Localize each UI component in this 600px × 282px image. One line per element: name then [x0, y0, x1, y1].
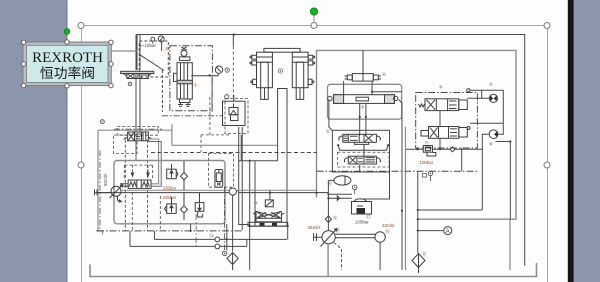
svg-text:⑰: ⑰	[366, 213, 371, 220]
long dash-dot rail y=231	[97, 230, 242, 232]
gauge circle left area	[100, 120, 104, 124]
wire	[239, 160, 278, 162]
pump P1 (variable main pump)	[95, 185, 123, 202]
left piston rods	[261, 62, 269, 99]
shuttle valve arrow	[328, 196, 351, 201]
right slate panel	[574, 0, 600, 282]
wire	[417, 171, 419, 253]
junction dot	[269, 192, 271, 194]
inner gray box 3	[328, 84, 402, 119]
wire	[481, 90, 483, 98]
dashed case drain	[334, 243, 342, 271]
gray wire from gauge junction down	[211, 75, 213, 112]
filter diamond F1	[412, 254, 425, 274]
crossbeam	[264, 48, 300, 52]
gauge circle above strainer	[223, 251, 227, 255]
gauge circle right	[158, 36, 164, 42]
wire	[328, 193, 352, 195]
wire	[241, 127, 243, 230]
pilot line	[152, 165, 154, 180]
svg-text:100bar: 100bar	[355, 220, 369, 225]
circle symbol	[227, 69, 228, 70]
junction dot	[509, 140, 511, 142]
center yoke	[278, 89, 287, 103]
test gauge under RV3	[428, 171, 432, 175]
wire	[372, 91, 402, 93]
wire V1 to V2	[136, 78, 140, 132]
wire	[254, 161, 256, 226]
circle symbol	[430, 173, 431, 174]
svg-text:100bar: 100bar	[420, 160, 434, 165]
gear pump P3	[375, 232, 385, 242]
tank line (bottom reservoir rail)	[90, 263, 537, 277]
junction dot	[359, 116, 361, 118]
wire	[360, 198, 371, 200]
left cylinder body	[257, 52, 273, 87]
component 4 (top capsule)	[345, 50, 381, 81]
element	[337, 152, 389, 167]
wire below box6 right	[461, 148, 463, 171]
element	[450, 147, 455, 152]
circle symbol	[129, 83, 130, 84]
bowtie body	[256, 211, 269, 218]
gray left drop wire	[97, 130, 99, 231]
junction dot	[401, 210, 403, 212]
dashed drop line from box B	[161, 70, 163, 112]
dashed box top over compensators	[124, 164, 152, 166]
dash-dot rail y=150.4	[151, 152, 317, 154]
wire under junction J1 to strainer	[232, 195, 234, 251]
junction dot	[371, 91, 373, 93]
long riser wire x=328.4	[327, 180, 329, 230]
svg-text:22ml/r: 22ml/r	[382, 223, 395, 228]
wire from valve3 left port down to box5	[329, 100, 333, 131]
svg-text:恒功率阀: 恒功率阀	[40, 65, 95, 81]
left lower port	[253, 79, 257, 84]
pilot line from frame top (solid then dashed)	[232, 35, 234, 47]
textbox fill	[26, 45, 108, 82]
junction dot	[287, 225, 289, 227]
motor M2	[489, 130, 498, 139]
right upper ports	[308, 55, 313, 59]
junction dot	[417, 218, 419, 220]
main pump P2	[314, 229, 337, 247]
dashed box around V2	[117, 126, 158, 135]
bottom wire y=226.4	[250, 225, 288, 227]
selection handle mid-left	[78, 162, 84, 168]
svg-text:6~10bar: 6~10bar	[139, 43, 156, 48]
right cylinder body	[292, 52, 308, 87]
right piston rods	[296, 62, 304, 99]
pilot arrows above compensators	[131, 165, 149, 176]
motor M1	[489, 94, 497, 102]
element	[248, 222, 288, 226]
valve row2 box6	[421, 127, 470, 139]
cylinder return elbow	[240, 135, 242, 161]
wire	[359, 165, 361, 171]
wire	[183, 213, 185, 220]
check diamond D1	[181, 173, 188, 180]
right cylinder drop wire	[286, 102, 288, 226]
svg-text:25ml/r: 25ml/r	[308, 225, 321, 230]
check diamond D2	[181, 206, 188, 213]
element	[66, 0, 67, 282]
wire valve10 up to main line	[269, 190, 271, 200]
gray pilot frame loop (right)	[317, 50, 517, 219]
sequence cartridge SQ	[215, 170, 223, 188]
wire	[238, 192, 328, 194]
center label 11	[278, 69, 282, 73]
element	[494, 95, 497, 101]
element	[490, 95, 493, 101]
wire to M1	[467, 97, 489, 99]
check diamond D3	[325, 216, 331, 223]
selection handle top-right	[544, 23, 550, 29]
wire	[498, 123, 504, 134]
right lower port	[308, 79, 312, 84]
M2 out wire	[482, 134, 489, 210]
junction dot	[417, 209, 419, 211]
svg-text:80ml/r: 80ml/r	[103, 173, 108, 186]
riser to D1	[183, 161, 185, 173]
svg-text:335bar: 335bar	[163, 186, 177, 191]
element	[260, 223, 265, 226]
pilot line	[232, 46, 234, 102]
junction port circle J1	[229, 188, 236, 195]
svg-text:A: A	[446, 229, 450, 235]
shaft double line	[335, 233, 375, 235]
wire	[354, 190, 356, 195]
selection handle top-left	[78, 23, 84, 29]
wire right of valve17	[371, 147, 390, 200]
valve row2 in box5 (dashed surround)	[344, 144, 380, 164]
element	[422, 174, 426, 178]
junction dot	[249, 160, 251, 162]
gray feed wire W	[98, 129, 172, 131]
M1 bypass loop	[470, 90, 503, 123]
circle symbol	[102, 121, 103, 122]
junction dot	[365, 116, 367, 118]
wire	[171, 124, 173, 145]
dashed pilot drops from compensators	[132, 192, 160, 231]
small circle right of gauge	[225, 68, 229, 72]
wires from 4 down to 3	[371, 81, 373, 95]
schematic main outer frame	[137, 35, 525, 266]
junction dot	[327, 197, 329, 199]
pressure gauge G1	[191, 66, 223, 76]
directional valve V2	[124, 132, 151, 141]
junction dot	[416, 148, 418, 150]
junction circle JA	[215, 237, 220, 242]
junction dot	[439, 148, 441, 150]
suction strainer S1	[227, 253, 238, 271]
return lines into tank (right)	[509, 219, 511, 270]
directional valve V1 (4/3 solenoid)	[121, 71, 154, 78]
return wire from manifold area down	[249, 161, 251, 270]
base plate	[256, 218, 281, 222]
diagonal arrow in box B	[139, 54, 164, 70]
green rotation handle	[310, 8, 317, 15]
junction dot	[249, 225, 251, 227]
junction dot	[337, 144, 339, 146]
wire	[236, 190, 238, 192]
port label (A)	[444, 227, 452, 235]
wire pair frame to valve V1	[135, 35, 137, 71]
circle symbol	[224, 253, 225, 254]
svg-text:⑯: ⑯	[327, 180, 332, 187]
selection handle mid-right	[544, 162, 550, 168]
svg-text:REXROTH: REXROTH	[32, 50, 103, 66]
dashed box B (variable orifice)	[139, 41, 168, 77]
junction dot	[417, 230, 419, 232]
junction dot	[327, 193, 329, 195]
wire	[343, 81, 345, 95]
svg-text:⑭: ⑭	[335, 227, 340, 234]
wire	[183, 193, 185, 206]
junction dot at riser	[315, 192, 317, 194]
small gauge G2	[352, 185, 357, 190]
small gauge circle above box C	[225, 95, 229, 99]
rotation handle stem	[313, 13, 315, 26]
pump suction gray line	[327, 244, 329, 277]
element	[494, 131, 498, 137]
spool valve 3	[328, 95, 398, 104]
wire	[365, 103, 367, 135]
valve row1 in box5	[338, 134, 388, 150]
wire row2 to M2 via loop	[470, 122, 503, 124]
wires from valve3 right port down	[399, 100, 402, 127]
manifold drain stub	[190, 224, 192, 231]
textbox shadow/border	[23, 42, 111, 86]
svg-text:⑬: ⑬	[333, 215, 338, 222]
pilot valve box C	[223, 95, 246, 126]
circle symbol	[280, 70, 281, 71]
junction dot	[190, 230, 192, 232]
gauge circle above 6~10bar	[151, 37, 155, 41]
wire	[97, 192, 230, 194]
dash-dot line through V2 area	[114, 128, 162, 130]
reducing valve RD	[195, 193, 204, 247]
textbox leader wire	[112, 50, 138, 52]
wire	[429, 176, 431, 181]
wire	[433, 148, 450, 150]
selection bounding box of schematic group	[81, 26, 548, 282]
dash-dot drop from SQ box	[224, 187, 226, 250]
junction dot on frame	[233, 34, 235, 36]
selection handle top-mid	[311, 23, 317, 29]
wires below V2 (dashed pilots)	[125, 140, 147, 231]
P3 suction line	[379, 242, 381, 270]
compensator valve pair	[120, 180, 151, 188]
relief valve RV2	[165, 197, 177, 213]
drain wire with gauge to strainer	[226, 224, 228, 250]
wire from box6 row2 down to RV3 wire	[439, 138, 441, 149]
svg-text:⑮: ⑮	[385, 228, 390, 235]
wire	[183, 180, 185, 191]
circle symbol	[354, 187, 355, 188]
pilot wire from accumulator	[328, 179, 334, 181]
junction circle JB	[215, 244, 220, 249]
relief valve 17 (100bar)	[352, 199, 372, 214]
S-bend wire pair V2 to compensator	[148, 139, 158, 184]
dash-dot box 2	[170, 46, 213, 111]
wires from 3 down	[359, 103, 361, 135]
wire	[148, 142, 161, 187]
RV3 supply wire with check diamond	[406, 148, 424, 150]
wire to (A)	[418, 230, 443, 232]
textbox green rotation handle	[64, 29, 70, 35]
junction dot	[387, 144, 389, 146]
dash-dot vertical at x=100	[99, 150, 101, 231]
main pressure double line	[121, 189, 230, 191]
pilot line	[123, 165, 125, 180]
relief valve RV1	[167, 164, 178, 179]
dashed box around SQ	[209, 154, 234, 188]
CP valve U1 body	[174, 47, 193, 107]
M2 drain wire	[496, 142, 511, 220]
svg-text:335bar: 335bar	[163, 195, 177, 200]
drain circle under V1	[128, 82, 132, 86]
dash-dot rail y=171.2	[317, 170, 478, 172]
main double line continuation to riser x=317	[238, 189, 317, 191]
wire	[405, 127, 407, 270]
wire	[455, 148, 483, 150]
dashed pilot lines near box C	[162, 97, 248, 152]
wire	[172, 144, 278, 146]
left upper ports	[252, 55, 257, 59]
wires from pilot box down	[239, 127, 250, 225]
pilot solenoid box	[265, 200, 273, 207]
junction dot on gauge wire	[209, 74, 211, 76]
right black divider bar	[568, 0, 574, 282]
svg-text:⑬: ⑬	[422, 251, 427, 258]
gray corner bottom-left of manifold	[96, 231, 103, 235]
crossover wire in box6	[439, 111, 441, 127]
left slate panel	[0, 0, 68, 282]
textbox handles	[21, 40, 113, 88]
manifold gray box	[114, 161, 225, 224]
textbox rotation handle stem	[66, 34, 68, 43]
junction dot	[226, 238, 228, 240]
dashed box under V2	[114, 135, 138, 154]
valve row1 box6	[419, 89, 471, 111]
accumulator ACC	[334, 176, 351, 185]
element	[357, 208, 366, 214]
wire	[335, 237, 375, 239]
drop wires to junction circles	[130, 226, 288, 246]
bottom link wire	[418, 209, 483, 211]
element	[272, 223, 277, 226]
svg-text:⑫: ⑫	[209, 232, 214, 239]
center guide drop wire	[277, 102, 279, 161]
